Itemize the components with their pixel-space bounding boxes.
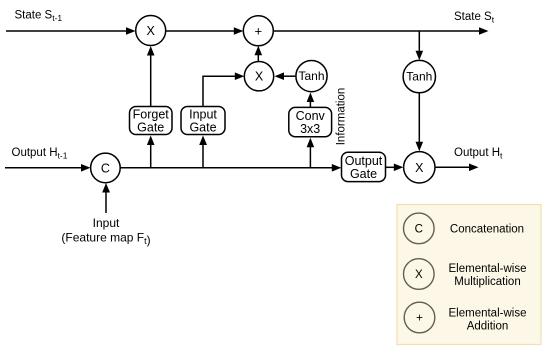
svg-text:Multiplication: Multiplication [454, 276, 520, 288]
wire: branch up into Conv 3x3 [307, 138, 315, 168]
svg-text:C: C [101, 161, 110, 175]
svg-text:Gate: Gate [189, 121, 216, 135]
wire: Tanh2 down into X3 [416, 93, 424, 152]
svg-text:Addition: Addition [467, 320, 509, 332]
node X2: element-wise multiplication circle [244, 61, 273, 90]
legend node X: elemental-wise multiplication [404, 259, 435, 290]
wire: Output H(t-1) input line into C [5, 164, 91, 172]
node PLUS: element-wise addition circle [243, 16, 273, 46]
label: Input (Feature map Ft) [61, 216, 150, 247]
svg-text:Input: Input [189, 108, 217, 122]
svg-text:+: + [255, 23, 263, 38]
svg-text:Elemental-wise: Elemental-wise [449, 307, 527, 319]
svg-text:Tanh: Tanh [406, 70, 432, 84]
svg-text:Forget: Forget [133, 108, 170, 122]
legend label: Concatenation [450, 223, 524, 235]
wire: Input up into C [102, 183, 110, 213]
svg-text:+: + [416, 313, 423, 325]
svg-text:Input: Input [93, 216, 120, 230]
wire: plus node to State S(t) output [273, 27, 488, 35]
svg-text:Tanh: Tanh [298, 69, 324, 83]
node X1: element-wise multiplication circle [136, 16, 166, 46]
wire: state S(t-1) input line into X1 [6, 27, 136, 35]
label: Information (rotated) [336, 88, 348, 146]
node C: concatenation circle [91, 153, 121, 183]
svg-text:Output Ht: Output Ht [454, 147, 503, 161]
legend label: Elemental-wise Addition [449, 307, 527, 332]
label: Output H t [454, 147, 503, 161]
svg-text:Output: Output [345, 154, 383, 168]
wire: Forget Gate up into X1 [147, 46, 155, 107]
svg-text:Gate: Gate [137, 121, 164, 135]
svg-text:Concatenation: Concatenation [450, 223, 524, 235]
label: Output H t-1 [12, 147, 68, 161]
legend box [397, 205, 541, 345]
legend node C: concatenation [404, 213, 435, 244]
wire: branch from state line down into Tanh2 [416, 31, 424, 60]
svg-text:X: X [415, 269, 423, 281]
wire: X2 up into plus node [255, 46, 263, 62]
node Tanh1 circle [296, 61, 327, 92]
box: Forget Gate [130, 107, 173, 135]
svg-text:State St: State St [454, 11, 495, 25]
node Tanh2 circle [403, 60, 435, 92]
svg-text:3x3: 3x3 [300, 122, 320, 136]
legend node plus: elemental-wise addition [404, 302, 435, 333]
box: Input Gate [181, 107, 225, 135]
box: Output Gate [342, 152, 386, 181]
svg-text:Gate: Gate [350, 167, 377, 181]
svg-text:Conv: Conv [296, 109, 326, 123]
wire: Tanh1 left into X2 [275, 72, 296, 80]
svg-text:Elemental-wise: Elemental-wise [449, 263, 527, 275]
label: State S t [454, 11, 495, 25]
wire: main line from C to Output Gate [120, 164, 341, 172]
legend label: Elemental-wise Multiplication [449, 263, 527, 288]
node X3: element-wise multiplication circle [404, 152, 435, 183]
wire: branch up into Input Gate [199, 136, 207, 168]
wire: Input Gate up and right into X2 [203, 72, 244, 106]
wire: X3 to Output H(t) [435, 164, 479, 172]
wire: X1 to plus node [166, 27, 244, 35]
svg-text:C: C [415, 223, 423, 235]
wire: Output Gate into X3 [386, 164, 404, 172]
box: Conv 3x3 [289, 107, 332, 136]
svg-text:X: X [147, 24, 156, 38]
label: State S t-1 [15, 10, 63, 24]
svg-text:Information: Information [336, 88, 348, 146]
svg-text:X: X [415, 161, 424, 175]
wire: branch up into Forget Gate [147, 136, 155, 168]
svg-text:X: X [255, 70, 264, 84]
wire: Conv 3x3 up into Tanh1 [307, 93, 315, 108]
